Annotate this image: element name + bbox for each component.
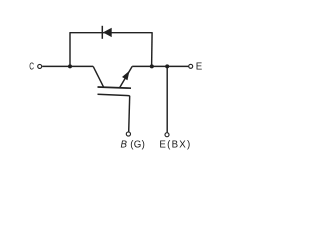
terminal circle B(G) bbox=[126, 132, 130, 136]
wire collector horizontal from terminal C bbox=[42, 65, 93, 67]
terminal circle E(BX) bbox=[165, 133, 169, 137]
junction dot at auxiliary emitter node bbox=[165, 64, 169, 68]
svg-text:C: C bbox=[29, 61, 34, 72]
diode D1 cathode bar bbox=[101, 26, 103, 39]
terminal circle C bbox=[38, 64, 42, 68]
terminal circle E bbox=[189, 64, 193, 68]
wire left vertical bbox=[69, 32, 71, 66]
svg-text:E: E bbox=[196, 62, 203, 73]
svg-text:B (G): B (G) bbox=[121, 139, 146, 150]
diode D1 anode triangle bbox=[104, 29, 111, 37]
wire emitter horizontal to terminal E bbox=[132, 65, 188, 67]
junction dot at collector node bbox=[68, 64, 72, 68]
wire auxiliary emitter vertical down to E(BX) bbox=[166, 66, 168, 132]
transistor Q1 emitter arrowhead bbox=[123, 72, 129, 80]
transistor Q1 collector slant bbox=[93, 66, 104, 87]
wire gate vertical down to B(G) bbox=[129, 96, 130, 132]
transistor Q1 emitter slant bbox=[120, 66, 133, 87]
svg-text:E(BX): E(BX) bbox=[159, 139, 191, 150]
transistor Q1 gate bar bbox=[98, 94, 130, 95]
junction dot at emitter/top-wire node bbox=[150, 64, 154, 68]
wire right vertical (top to emitter node) bbox=[151, 32, 154, 66]
wire top horizontal bbox=[70, 32, 152, 34]
transistor Q1 body bar bbox=[98, 87, 132, 88]
